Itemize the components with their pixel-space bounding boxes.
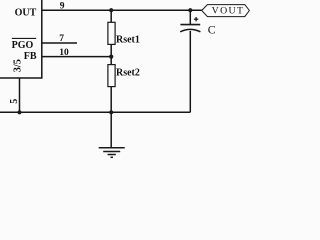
svg-text:Rset2: Rset2: [116, 68, 140, 79]
svg-text:VOUT: VOUT: [212, 6, 245, 17]
svg-text:7: 7: [59, 34, 64, 44]
wire pin 5 down to ground rail: [19, 78, 21, 112]
svg-text:FB: FB: [24, 51, 37, 62]
wire Rset1 bottom to Rset2 top: [110, 44, 112, 64]
junction dot: top wire / capacitor: [188, 8, 192, 12]
resistor Rset2: [108, 65, 115, 87]
capacitor C bottom curved plate: [180, 29, 200, 31]
wire capacitor bottom lead: [189, 31, 191, 112]
svg-text:5: 5: [9, 99, 20, 104]
svg-text:C: C: [208, 22, 216, 36]
svg-text:9: 9: [60, 2, 65, 12]
capacitor plus sign: [194, 17, 198, 21]
svg-text:Rset1: Rset1: [116, 34, 140, 45]
svg-text:3/5: 3/5: [13, 59, 24, 72]
wire pin 7 PGO stub: [42, 42, 77, 44]
svg-text:PGO: PGO: [12, 40, 34, 51]
wire ground stem: [110, 112, 112, 147]
junction dot: top wire / Rset1: [109, 8, 113, 12]
wire Rset2 bottom lead: [110, 87, 112, 113]
net flag VOUT outline: [202, 5, 250, 17]
PGO overline: [12, 37, 36, 39]
wire Rset1 top lead: [110, 10, 112, 22]
wire bottom ground rail: [0, 111, 190, 113]
junction dot: divider column / ground rail: [109, 110, 113, 114]
ground symbol bars: [99, 148, 125, 158]
junction dot: pin5 / ground rail: [17, 110, 21, 114]
svg-text:OUT: OUT: [15, 8, 37, 19]
capacitor C top plate: [180, 24, 200, 26]
wire pin 9 OUT to VOUT flag: [42, 9, 202, 11]
junction dot: FB / divider node: [109, 55, 113, 59]
wire capacitor top lead: [189, 10, 191, 24]
resistor Rset1: [108, 22, 115, 44]
wire pin 10 FB to resistor divider node: [42, 56, 111, 58]
IC U1 box (right and bottom edges, cropped at left/top): [0, 0, 42, 78]
svg-text:10: 10: [59, 48, 69, 58]
